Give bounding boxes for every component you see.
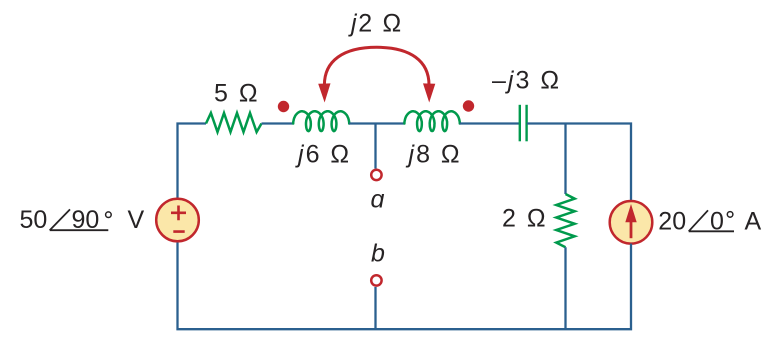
svg-text:b: b xyxy=(371,240,385,268)
voltage source 50V xyxy=(156,199,199,242)
resistor 5ohm xyxy=(206,113,262,132)
wire j8 to capacitor xyxy=(460,122,520,124)
mutual coupling arc j2 xyxy=(318,47,435,102)
svg-text:j6 Ω: j6 Ω xyxy=(295,141,351,169)
wire bottom-left xyxy=(178,242,376,330)
svg-text:50: 50 xyxy=(20,206,48,234)
svg-text:–j3 Ω: –j3 Ω xyxy=(492,67,561,95)
wire current source to bottom-right corner xyxy=(376,244,632,330)
wire 2ohm to bottom xyxy=(564,247,566,329)
branch 2ohm: top wire junction down xyxy=(564,124,566,195)
svg-text:20: 20 xyxy=(658,208,686,236)
capacitor -j3 xyxy=(520,105,527,142)
wire middle branch to terminal a xyxy=(374,124,376,169)
svg-text:A: A xyxy=(745,208,762,236)
current source 20A xyxy=(610,201,653,244)
wire j6 to j8 xyxy=(349,122,404,124)
svg-text:5 Ω: 5 Ω xyxy=(214,80,260,108)
wire resistor to j6 xyxy=(262,122,294,124)
wire top-left segment xyxy=(178,124,207,199)
svg-text:j2 Ω: j2 Ω xyxy=(348,9,403,37)
terminal b xyxy=(371,275,381,285)
label 20 angle 0 A xyxy=(658,208,761,236)
wire terminal b to bottom xyxy=(374,287,376,329)
svg-text:ɑ: ɑ xyxy=(371,186,385,214)
inductor j8 L2 xyxy=(404,111,459,131)
inductor j6 L1 xyxy=(293,111,349,131)
terminal a xyxy=(371,170,381,180)
svg-text:2 Ω: 2 Ω xyxy=(502,205,548,233)
coupling dot left xyxy=(278,101,289,112)
wire capacitor to top-right corner xyxy=(527,124,631,201)
svg-text:V: V xyxy=(128,206,145,234)
resistor 2ohm xyxy=(556,194,574,247)
svg-text:j8 Ω: j8 Ω xyxy=(406,141,462,169)
coupling dot right xyxy=(463,100,474,111)
label 50 angle 90 V xyxy=(20,206,145,234)
